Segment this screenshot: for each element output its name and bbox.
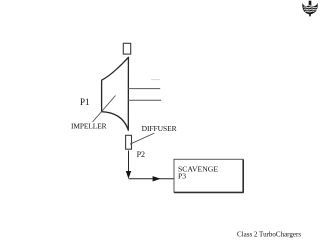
impeller outline — [102, 57, 129, 130]
faint shaft mark — [151, 79, 160, 81]
diffuser pointer line — [130, 133, 154, 144]
logo crest top knob — [309, 1, 312, 5]
svg-text:IMPELLER: IMPELLER — [71, 122, 107, 131]
shaft line upper — [128, 88, 160, 90]
logo wavy stripe 3 — [304, 8, 317, 11]
logo wavy stripe 2 — [303, 6, 316, 9]
svg-text:DIFFUSER: DIFFUSER — [142, 124, 177, 133]
logo wavy stripe 4 — [305, 10, 314, 13]
logo wavy stripe 1 — [306, 4, 315, 7]
flow arrow down head — [126, 171, 131, 179]
impeller pointer line — [93, 96, 116, 123]
svg-text:P3: P3 — [178, 172, 186, 181]
logo crest body — [302, 3, 317, 17]
flow arrow down shaft — [128, 151, 130, 172]
flow arrow right head — [153, 176, 161, 181]
scavenge box right shadow edge — [242, 160, 244, 193]
shaft line lower — [128, 99, 161, 101]
svg-text:P2: P2 — [137, 150, 145, 159]
svg-text:Class 2 TurboChargers: Class 2 TurboChargers — [237, 230, 301, 238]
scavenge box bottom shadow edge — [174, 192, 243, 194]
inlet rectangle — [123, 43, 130, 54]
svg-text:P1: P1 — [80, 97, 90, 107]
flow line to scavenge box — [129, 178, 174, 180]
diffuser rectangle — [126, 135, 132, 149]
scavenge box — [174, 159, 243, 192]
